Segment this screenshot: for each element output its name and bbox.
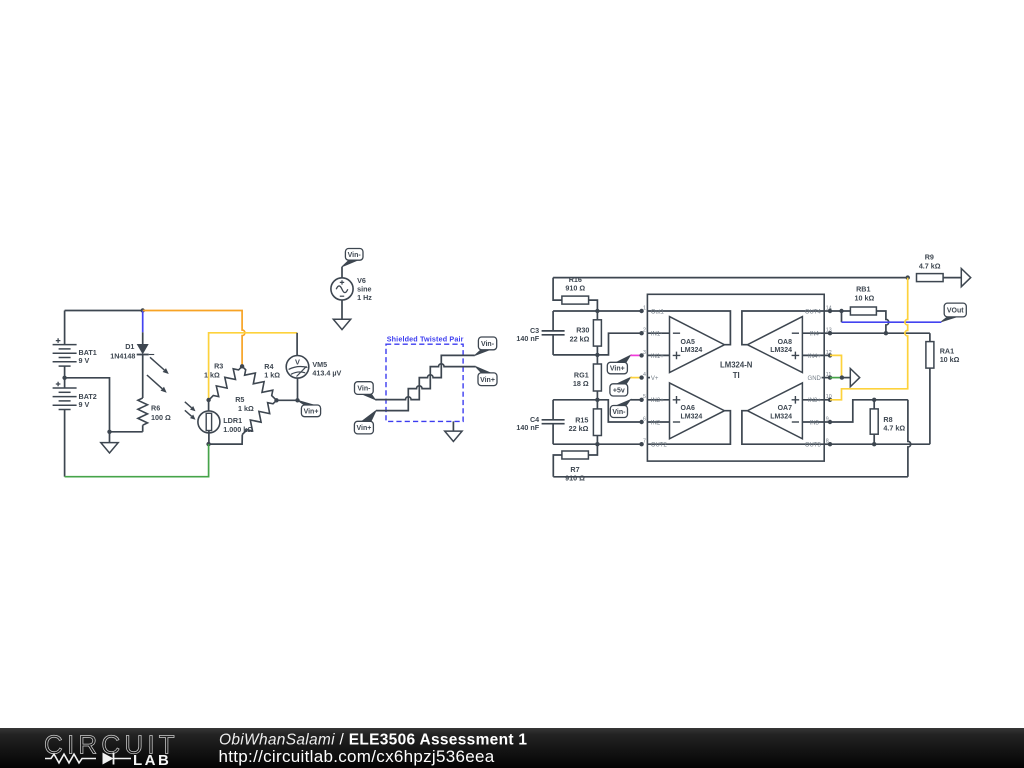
battery BAT2	[53, 382, 77, 410]
svg-text:Vin+: Vin+	[304, 409, 319, 416]
svg-text:LDR1: LDR1	[223, 416, 242, 425]
node R9 tap	[906, 275, 910, 279]
wire VM5 top lead	[296, 333, 298, 356]
op-amp OA5	[670, 317, 725, 373]
wire green net (bridge bottom to battery minus)	[65, 444, 209, 477]
svg-text:OA5: OA5	[681, 339, 696, 346]
wire R6 bottom	[142, 425, 144, 432]
voltage source V6 sine	[331, 278, 353, 300]
svg-text:Vin-: Vin-	[481, 341, 495, 348]
wire bottom rail (R7/pin9 net)	[553, 476, 908, 478]
wire V6 bottom lead	[341, 300, 343, 319]
svg-text:1 kΩ: 1 kΩ	[204, 371, 220, 380]
svg-text:IN1-: IN1-	[651, 332, 662, 338]
ground under V6	[333, 319, 350, 329]
node battery midpoint	[62, 376, 66, 380]
svg-text:IN3+: IN3+	[808, 398, 821, 404]
svg-text:1.000 kΩ: 1.000 kΩ	[223, 425, 253, 434]
wire ground node to R6 bottom	[110, 431, 143, 433]
svg-text:R3: R3	[214, 362, 223, 371]
svg-text:ObiWhanSalami / ELE3506 Assess: ObiWhanSalami / ELE3506 Assessment 1	[219, 732, 527, 749]
svg-text:IN4+: IN4+	[808, 354, 821, 360]
wire C3 bottom to R30 node	[553, 354, 597, 356]
op-amp IC U1 LM324-N box	[647, 294, 824, 461]
node pin 13	[824, 332, 830, 334]
node pin 4	[639, 375, 643, 379]
svg-text:Vin-: Vin-	[357, 386, 371, 393]
svg-text:22 kΩ: 22 kΩ	[570, 334, 590, 343]
svg-text:IN3-: IN3-	[810, 420, 821, 426]
node R8 top	[872, 398, 876, 402]
svg-text:Vin+: Vin+	[480, 377, 495, 384]
wire yellow pin10 feedback to R9 tap	[830, 278, 908, 400]
svg-text:OUT2: OUT2	[651, 443, 668, 449]
resistor R9 4.7 kOhm	[917, 274, 944, 282]
flag VOut	[941, 317, 956, 322]
svg-text:D1: D1	[125, 342, 134, 351]
wire pin4 internal stub	[647, 377, 650, 379]
node bridge right	[274, 398, 278, 402]
flag Vin- (twisted pair left)	[363, 394, 375, 399]
wire pin8 internal to OA7 output	[742, 411, 824, 445]
wire green pin11 GND	[830, 377, 842, 379]
wire yellow +5v to pin4	[630, 377, 641, 379]
svg-text:910 Ω: 910 Ω	[565, 474, 585, 483]
svg-text:Out1: Out1	[651, 309, 665, 315]
svg-text:100 Ω: 100 Ω	[151, 413, 171, 422]
wire D1 to R6	[142, 355, 144, 399]
svg-text:Vin+: Vin+	[610, 366, 625, 373]
svg-text:V+: V+	[651, 376, 659, 382]
svg-text:Vin-: Vin-	[348, 252, 362, 259]
node bridge left	[206, 398, 210, 402]
svg-text:4.7 kΩ: 4.7 kΩ	[883, 423, 905, 432]
node RG1/R15 junction	[595, 398, 599, 402]
wire blue net to VOut	[842, 321, 942, 323]
wire Vin- to pin5	[630, 399, 641, 401]
node pin 10	[824, 399, 830, 401]
wire pin1 rail	[553, 310, 642, 312]
wire pin3 internal	[647, 354, 669, 356]
svg-text:OA6: OA6	[681, 405, 696, 412]
flag Vin+ (twisted pair right)	[476, 367, 491, 373]
wire pin11 internal stub	[822, 377, 825, 379]
svg-text:LM324: LM324	[770, 347, 792, 354]
svg-text:18 Ω: 18 Ω	[573, 379, 589, 388]
svg-text:IN1+: IN1+	[651, 354, 664, 360]
node pin 2	[639, 331, 643, 335]
svg-text:22 kΩ: 22 kΩ	[569, 424, 589, 433]
node pin 8	[824, 443, 830, 445]
svg-text:LM324: LM324	[681, 347, 703, 354]
svg-text:140 nF: 140 nF	[516, 423, 539, 432]
svg-text:OUT3: OUT3	[805, 443, 822, 449]
node pin 1	[639, 309, 643, 313]
wire pin13 internal	[802, 332, 824, 334]
node R30 bottom	[595, 353, 599, 357]
wire V6 top lead	[341, 267, 343, 278]
wire node to pin6 (jog)	[597, 400, 641, 422]
ground symbol G1	[109, 432, 111, 443]
wire node left to C4	[553, 399, 597, 401]
resistor R15 22 kOhm	[596, 400, 598, 409]
wire pin7 rail	[553, 443, 642, 445]
shield box (dashed)	[386, 344, 463, 421]
svg-text:IN4-: IN4-	[810, 332, 821, 338]
svg-text:R5: R5	[235, 395, 244, 404]
svg-text:V: V	[295, 357, 300, 366]
flag +5v (to pin4)	[617, 378, 630, 384]
svg-text:140 nF: 140 nF	[516, 334, 539, 343]
svg-text:1 kΩ: 1 kΩ	[238, 404, 254, 413]
wire orange net (supply to bridge top)	[143, 311, 245, 367]
wire magenta Vin+ to pin3	[630, 354, 641, 356]
wire battery midpoint to ground node	[65, 378, 110, 432]
wire yellow net (bridge left to VM5)	[209, 333, 298, 400]
capacitor C3 140 nF	[552, 311, 554, 331]
svg-text:R15: R15	[575, 415, 588, 424]
node pin 14	[824, 310, 830, 312]
node pin 5	[639, 398, 643, 402]
wire pin14 internal to OA8 output	[742, 311, 824, 345]
capacitor C4 140 nF	[552, 400, 554, 420]
ground (rotated) at pin11	[850, 369, 859, 387]
wire BAT1 to BAT2 node	[64, 366, 66, 388]
wire pin2 internal	[647, 332, 669, 334]
battery BAT1	[53, 338, 77, 366]
svg-text:RA1: RA1	[940, 347, 954, 356]
svg-text:Vin+: Vin+	[356, 425, 371, 432]
svg-text:LM324-N: LM324-N	[720, 361, 753, 370]
resistor RB1 10 kOhm	[830, 310, 850, 312]
svg-text:http://circuitlab.com/cx6hpzj5: http://circuitlab.com/cx6hpzj536eea	[219, 747, 495, 766]
wire pin10 internal	[802, 399, 824, 401]
svg-text:R9: R9	[925, 253, 934, 262]
svg-text:4.7 kΩ: 4.7 kΩ	[919, 261, 941, 270]
resistor R16 910 Ohm	[553, 278, 562, 301]
svg-text:Vin-: Vin-	[612, 409, 626, 416]
node R16/R30 junction	[595, 309, 599, 313]
node ground junction	[107, 430, 111, 434]
resistor RA1 10 kOhm	[929, 333, 931, 341]
wire twisted pair B (Vin+ conductor)	[376, 364, 476, 411]
svg-text:LM324: LM324	[770, 413, 792, 420]
svg-text:LM324: LM324	[681, 413, 703, 420]
svg-text:VOut: VOut	[947, 308, 964, 315]
resistor R5 1 kOhm	[242, 400, 276, 434]
node Vin+ tap	[295, 398, 299, 402]
resistor R8 4.7 kOhm	[873, 400, 875, 409]
node pin14 branch	[839, 309, 843, 313]
wire pin14 to blue corner	[841, 311, 843, 322]
svg-text:OA8: OA8	[778, 339, 793, 346]
svg-text:IN2+: IN2+	[651, 398, 664, 404]
wire blue segment from node down	[142, 311, 144, 333]
svg-text:LAB: LAB	[133, 752, 171, 768]
svg-text:R6: R6	[151, 404, 160, 413]
wire twisted pair A (Vin- conductor)	[375, 355, 475, 399]
svg-text:9 V: 9 V	[79, 356, 90, 365]
svg-text:Shielded Twisted Pair: Shielded Twisted Pair	[387, 335, 464, 344]
flag Vin+ (to pin3)	[617, 355, 631, 362]
wire RB1 right lead down to pin13 rail (hops blue)	[876, 311, 888, 333]
wire pin9 internal	[802, 421, 824, 423]
wire pin8 rail to RA1 bottom	[830, 443, 930, 445]
op-amp OA8	[747, 317, 802, 373]
op-amp OA7	[747, 383, 802, 439]
flag Vin+ (bridge)	[298, 400, 314, 405]
svg-text:VM5: VM5	[312, 360, 327, 369]
resistor R7 910 Ohm	[553, 455, 562, 477]
svg-text:10 kΩ: 10 kΩ	[855, 293, 875, 302]
svg-text:910 Ω: 910 Ω	[565, 283, 585, 292]
voltmeter VM5	[286, 356, 309, 379]
wire pin7 internal to OA6 output	[647, 411, 730, 445]
svg-text:RB1: RB1	[856, 285, 870, 294]
wire pin5 internal	[647, 399, 669, 401]
node RB1/pin13 junction	[884, 331, 888, 335]
ground (rotated) at R9 output	[961, 269, 970, 287]
resistor R6 100 Ohm	[138, 398, 148, 425]
svg-text:1N4148: 1N4148	[110, 351, 135, 360]
node pin 9	[824, 421, 830, 423]
node pin 3	[639, 353, 643, 357]
resistor R4 1 kOhm	[242, 366, 276, 400]
wire blue-to-D1	[142, 332, 144, 344]
flag Vin- (twisted pair right)	[475, 350, 490, 356]
wire riser to bottom rail (hops pin8 rail)	[908, 400, 911, 477]
node R15 bottom	[595, 442, 599, 446]
svg-text:OA7: OA7	[778, 405, 793, 412]
svg-text:1 Hz: 1 Hz	[357, 293, 372, 302]
flag Vin+ (twisted pair left)	[362, 411, 376, 422]
wire pin13 rail to RA1	[830, 332, 930, 334]
logo resistor-diode glyph	[45, 753, 131, 765]
diode D1 (LED) 1N4148	[137, 344, 169, 393]
wire pin1 internal to OA5 output	[647, 311, 730, 345]
wire VM5 bottom lead	[297, 378, 299, 400]
photoresistor LDR1 1.000 kOhm	[185, 400, 220, 444]
svg-text:10 kΩ: 10 kΩ	[940, 355, 960, 364]
wire BAT2 bottom down to green rail	[64, 410, 66, 477]
svg-text:OUT4: OUT4	[805, 309, 822, 315]
op-amp OA6	[670, 383, 725, 439]
svg-text:+5v: +5v	[613, 388, 625, 395]
wire bridge right to Vin+ node	[277, 399, 298, 401]
resistor R30 22 kOhm	[596, 311, 598, 320]
resistor R3 1 kOhm	[209, 366, 243, 400]
wire top rail left (battery top to node)	[64, 311, 66, 345]
node R8 bottom	[872, 442, 876, 446]
svg-text:TI: TI	[733, 371, 740, 380]
resistor RG1 18 Ohm	[596, 355, 598, 364]
svg-text:R30: R30	[576, 326, 589, 335]
node pin 12	[824, 354, 830, 356]
wire pin12 internal	[802, 354, 824, 356]
node pin 6	[639, 420, 643, 424]
svg-text:413.4 µV: 413.4 µV	[312, 369, 341, 378]
wire R30 node to pin2	[597, 333, 641, 355]
ground under shield box	[452, 421, 454, 431]
svg-text:GND: GND	[808, 376, 822, 382]
wire R5 bottom to bridge bottom	[209, 435, 243, 445]
node LDR bottom	[206, 442, 210, 446]
wire top rail (R16 to R9)	[553, 277, 908, 279]
wire GND node to ground symbol	[842, 377, 850, 379]
wire pin6 internal	[647, 421, 669, 423]
svg-text:1 kΩ: 1 kΩ	[264, 371, 280, 380]
flag Vin- (V6 top)	[342, 260, 358, 267]
wire yellow pin12 to GND node	[830, 355, 842, 377]
svg-text:9 V: 9 V	[79, 400, 90, 409]
wire pin9 loop	[830, 400, 908, 422]
node bridge top	[240, 364, 244, 368]
svg-text:IN2-: IN2-	[651, 420, 662, 426]
flag Vin- (to pin5)	[617, 400, 630, 406]
node pin 7	[639, 442, 643, 446]
node GND junction	[840, 375, 844, 379]
node pin 11	[824, 377, 830, 379]
node top-left main junction	[141, 308, 145, 312]
